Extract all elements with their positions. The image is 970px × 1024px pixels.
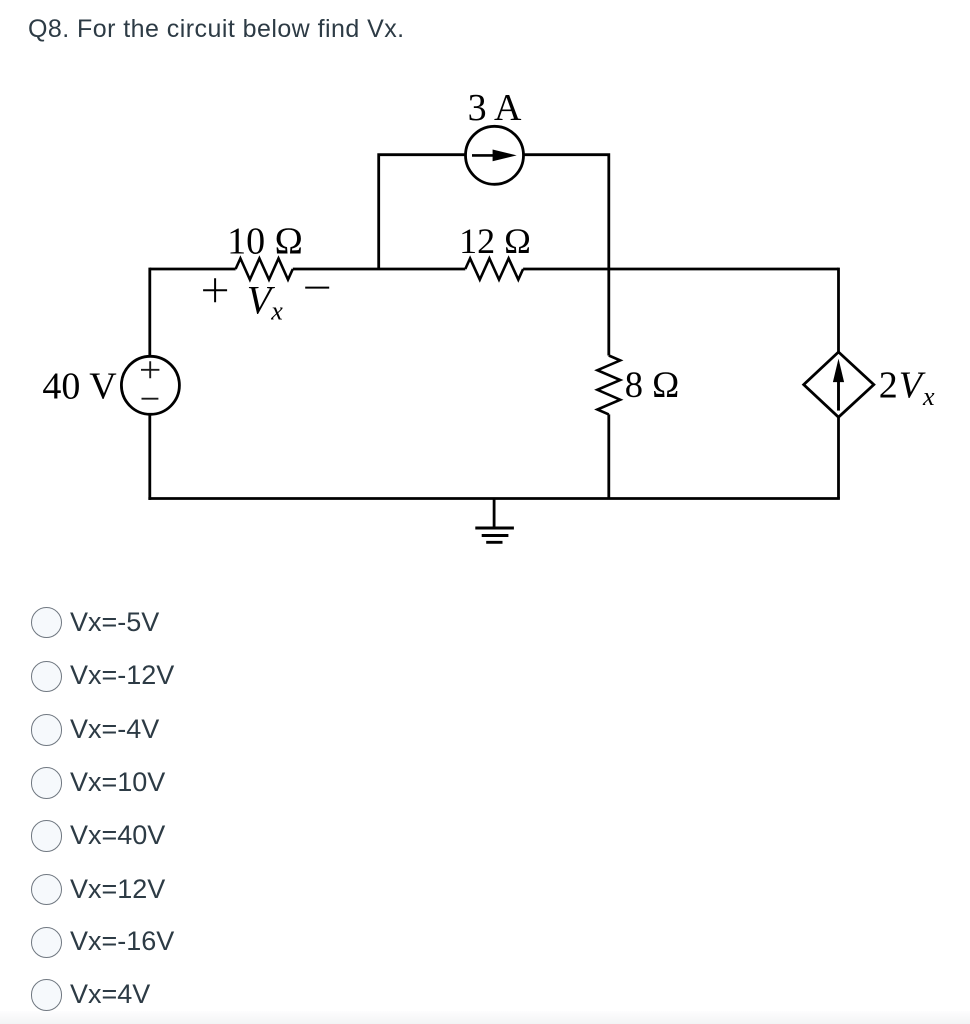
wire: ground stem bbox=[493, 499, 496, 529]
label Vx minus sign bbox=[305, 287, 329, 289]
wire: left vertical top (source to middle wire) bbox=[148, 268, 151, 356]
ground bbox=[475, 528, 514, 542]
resistor R3 8ohm zigzag bbox=[597, 356, 620, 415]
resistor R2 12ohm zigzag bbox=[465, 258, 523, 279]
wire: 8 ohm stubs bbox=[607, 268, 610, 499]
wire: middle horizontal right segment bbox=[523, 268, 838, 271]
wire: left vertical bottom bbox=[148, 415, 151, 500]
wire: middle horizontal between resistors bbox=[293, 268, 466, 271]
wire: bottom horizontal bbox=[148, 497, 840, 500]
dependent source diamond 2Vx bbox=[804, 352, 874, 417]
voltage source V1 minus bbox=[142, 398, 159, 400]
svg-text:40 V: 40 V bbox=[42, 365, 117, 407]
current source I1 3A circle bbox=[466, 126, 524, 184]
voltage source V1 plus bbox=[141, 361, 159, 378]
svg-text:Vx: Vx bbox=[247, 277, 283, 325]
svg-text:3 A: 3 A bbox=[468, 87, 522, 129]
svg-text:10 Ω: 10 Ω bbox=[227, 221, 303, 263]
wire: right vertical (middle wire to diamond, diamond to bottom) bbox=[837, 268, 840, 499]
current source I1 arrow bbox=[472, 154, 506, 157]
dependent source arrow bbox=[837, 378, 840, 411]
label Vx plus sign bbox=[203, 278, 227, 302]
voltage source V1 40V circle bbox=[121, 356, 179, 414]
wire: middle horizontal left segment bbox=[150, 268, 236, 271]
svg-text:2Vx: 2Vx bbox=[879, 365, 936, 412]
svg-text:12 Ω: 12 Ω bbox=[459, 221, 531, 261]
options bbox=[31, 607, 63, 639]
wire: top branch (left riser, top horizontal, right riser) bbox=[379, 155, 609, 269]
svg-text:8 Ω: 8 Ω bbox=[625, 364, 680, 405]
resistor R1 10ohm zigzag bbox=[236, 258, 293, 279]
